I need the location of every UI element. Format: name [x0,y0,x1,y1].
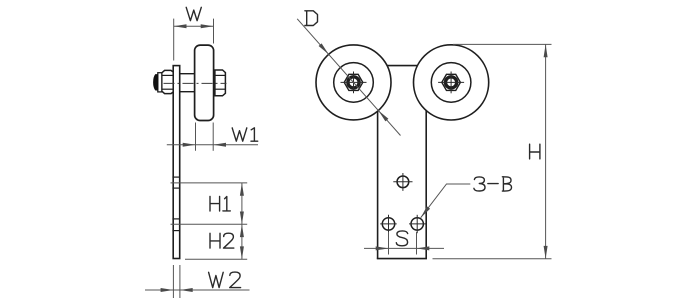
right wheel hub hex [442,74,461,90]
left hub rings [348,77,359,88]
S dimension extension lines [389,232,417,255]
dimension W1 line [167,144,258,146]
hex nut right of wheel [215,70,226,96]
S dimension line [364,247,444,249]
H dimension extension lines [433,44,552,258]
W1 arrow right [213,143,226,147]
dimension W2 extension lines [173,265,180,298]
H2 arrow down [240,246,244,259]
dimension W extension lines [174,19,214,61]
W2 arrow right [180,288,193,292]
hanger strap plate (side view) [173,66,180,259]
D arrow lower [378,111,388,122]
3-B leader [421,184,471,218]
lower-right plate hole [411,218,423,230]
dimension W2 line [145,289,250,291]
H1/H2 extension line bottom [185,258,247,260]
H arrow down [544,246,548,259]
lower-left plate hole [382,218,394,230]
dimension W line [174,25,214,27]
H dimension line [545,44,547,258]
S arrow right [417,246,430,250]
H2 arrow up [240,224,244,237]
right hub center marks [438,72,464,94]
right hub rings [446,77,457,88]
H1 arrow down [240,212,244,225]
left hub center marks [341,72,367,94]
strap hole 1 edge marks [172,177,180,188]
axle centerline [164,82,227,84]
dimension H1/H2 line [241,183,243,259]
W arrow left [174,24,187,28]
strap hole 2 edge marks [172,219,180,231]
label H2 [210,233,234,248]
washer [158,73,162,92]
right wheel outer [414,45,489,120]
label 3-B [474,177,512,191]
label W2 [209,272,241,288]
H1/H2 extension line top [171,182,248,184]
label W [186,7,201,20]
H1 arrow up [240,183,244,196]
3-B arrowhead [421,206,430,217]
left wheel outer [316,45,391,120]
bolt end cap (dark) [154,75,158,90]
hex nut left of strap [162,70,173,93]
bracket plate edges [377,66,427,259]
axle shaft between strap and wheel [180,74,195,92]
label H1 [210,196,230,211]
label H [530,144,540,159]
W arrow right [201,24,214,28]
left wheel hub hex [344,74,363,90]
H arrow up [544,44,548,57]
label D [305,11,318,26]
upper plate hole [397,176,409,188]
left wheel inner ring [334,63,374,103]
S arrow left [376,246,389,250]
label W1 [232,128,258,141]
dimension W1 extension lines [196,123,214,151]
right wheel inner ring [431,63,471,103]
H1/H2 extension line middle [171,223,248,225]
wheel (side profile) [195,45,214,120]
W2 arrow left [161,288,174,292]
D leader diagonal line [297,19,400,136]
upper hole center marks [393,173,412,191]
label S [396,231,407,246]
D arrow upper [319,43,329,54]
W1 arrow left [183,143,196,147]
